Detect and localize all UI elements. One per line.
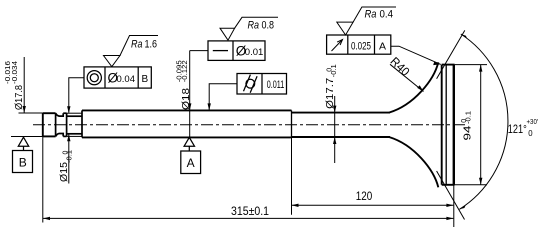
- wire: extension of head bottom edge for dia 94: [455, 184, 487, 186]
- wire: tip cap bottom edge: [43, 135, 56, 137]
- svg-text:Ra: Ra: [365, 8, 377, 20]
- wire: head left face: [441, 65, 443, 185]
- arrowhead arc upper end: [461, 34, 468, 39]
- svg-text:120: 120: [356, 191, 373, 203]
- roughness Ra 0.4: [337, 7, 396, 35]
- wire: head margin edge: [445, 65, 447, 185]
- svg-text:0.04: 0.04: [117, 74, 136, 85]
- svg-text:Ra: Ra: [131, 39, 143, 51]
- wire: step edge between D18 and D17.7: [291, 110, 293, 137]
- wire: upper fillet R40: [389, 62, 438, 112]
- dimension dia 17.7 stem right: [334, 96, 336, 163]
- svg-text:A: A: [187, 156, 195, 170]
- wire: head top edge: [442, 64, 455, 66]
- centerline (valve axis): [33, 124, 466, 126]
- svg-text:-0.1: -0.1: [331, 64, 338, 77]
- svg-text:0.025: 0.025: [351, 41, 371, 53]
- concentricity symbol: [87, 71, 101, 85]
- svg-text:0.8: 0.8: [262, 20, 275, 32]
- leader to tip groove: [69, 78, 84, 113]
- wire: neck groove top profile: [56, 113, 64, 116]
- roughness Ra 1.6: [104, 36, 159, 67]
- wire: left extension (end face extended): [42, 136, 44, 222]
- dimension dia 94: [480, 65, 482, 185]
- wire: stem D17.7 bottom edge: [292, 136, 391, 138]
- svg-text:-0.034: -0.034: [12, 61, 19, 84]
- svg-text:B: B: [141, 74, 148, 85]
- wire: right extension (head face extended): [453, 185, 455, 227]
- wire: valve tip end face: [42, 113, 44, 136]
- datum A symbol: [181, 137, 201, 173]
- svg-text:B: B: [19, 155, 27, 169]
- svg-text:Ø17.7: Ø17.7: [324, 78, 336, 109]
- roughness Ra 0.8: [220, 17, 278, 40]
- datum B symbol: [13, 137, 33, 172]
- runout arrow symbol: [332, 40, 343, 52]
- wire: neck groove bottom profile: [56, 134, 64, 137]
- dimension 120: [292, 137, 454, 214]
- tolerance frame 3: cylindricity 0.011: [209, 74, 286, 110]
- svg-text:Ø17.8: Ø17.8: [13, 85, 25, 110]
- wire: stem D18 top edge: [82, 109, 292, 111]
- svg-text:1.6: 1.6: [145, 39, 158, 51]
- wire: stem D18 bottom edge: [82, 136, 292, 138]
- wire: keeper groove outer top line: [67, 112, 82, 114]
- wire: extension of head top edge for dia 94: [455, 64, 487, 66]
- tolerance frame 1: concentricity 0.04 B: [69, 67, 152, 113]
- wire: head bottom edge: [442, 184, 455, 186]
- svg-text:315±0.1: 315±0.1: [231, 206, 269, 218]
- cylindricity symbol: [246, 79, 255, 88]
- leader: [209, 84, 237, 110]
- dimension 315 +-0.1: [43, 136, 454, 227]
- tolerance frame 4: circular runout 0.025 A: [327, 35, 441, 64]
- dimension dia 17.8 tip: [11, 57, 43, 137]
- svg-text:-0.1: -0.1: [67, 150, 74, 163]
- wire: tip cap right edge: [55, 113, 57, 136]
- svg-text:Ø18: Ø18: [180, 88, 192, 110]
- svg-text:A: A: [379, 41, 386, 53]
- dimension dia 15 groove: [68, 134, 70, 183]
- wire: seat angle extension line lower: [437, 171, 465, 220]
- leader to seat: [391, 46, 441, 64]
- wire: keeper groove outer bottom line: [67, 135, 82, 137]
- wire: lower fillet R40: [389, 137, 438, 187]
- tolerance frame 2: straightness dia 0.01: [190, 41, 265, 61]
- svg-text:0.011: 0.011: [267, 79, 285, 91]
- svg-text:0.4: 0.4: [380, 8, 394, 20]
- wire: seat angle extension line upper: [437, 30, 465, 78]
- dimension 121 deg text: [508, 117, 539, 138]
- svg-text:+30′: +30′: [527, 117, 539, 126]
- dimension dia 18 stem: [189, 51, 191, 138]
- arrowhead arc lower end: [459, 205, 466, 210]
- wire: land right edge: [66, 113, 68, 136]
- wire: extension below step: [291, 137, 293, 214]
- svg-text:94: 94: [462, 125, 474, 140]
- svg-text:Ra: Ra: [248, 20, 260, 32]
- wire: head right face: [453, 65, 455, 185]
- svg-text:121°: 121°: [508, 122, 527, 136]
- wire: keeper groove bottom (bottom side): [67, 133, 82, 135]
- wire: tip cap top edge: [43, 112, 56, 114]
- wire: stem D17.7 top edge: [292, 112, 391, 114]
- svg-text:-0.1: -0.1: [465, 111, 472, 124]
- wire: land bottom edge: [63, 135, 66, 137]
- dimension arc 121 deg: [459, 34, 508, 209]
- wire: stem start edge: [81, 110, 83, 137]
- svg-text:0: 0: [528, 129, 533, 138]
- svg-text:Ø15: Ø15: [58, 162, 70, 182]
- svg-text:-0.122: -0.122: [182, 60, 189, 82]
- svg-text:0.01: 0.01: [245, 47, 263, 58]
- wire: land top edge: [63, 112, 66, 114]
- wire: keeper groove bottom (top side): [67, 115, 82, 117]
